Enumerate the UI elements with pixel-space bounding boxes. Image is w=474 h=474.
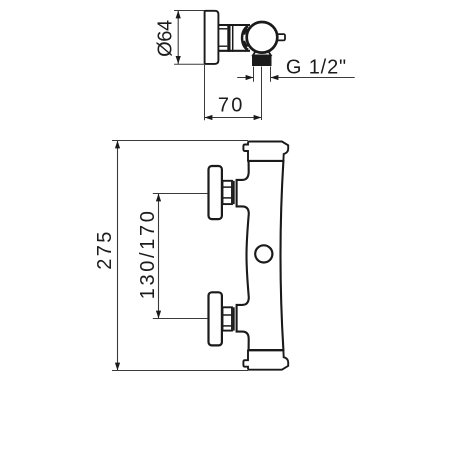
- diverter button circle: [255, 245, 272, 262]
- dim G1/2 right arrowhead: [271, 75, 279, 80]
- upper nut hex flat lower: [222, 197, 233, 199]
- svg-text:G 1/2": G 1/2": [286, 56, 347, 78]
- neck bottom edge: [218, 50, 250, 52]
- hex nut flat line lower: [218, 45, 227, 47]
- wall flange Ø64 disc (side view): [205, 11, 219, 64]
- dim G1/2 left arrow line: [237, 77, 253, 79]
- upper union: washer ring line: [233, 181, 235, 204]
- dim 70 dimension line: [205, 117, 262, 119]
- dim 130/170 arrow down: [156, 311, 161, 319]
- lower wall rosette: [209, 292, 222, 345]
- dim 275 bottom extension line: [112, 370, 248, 372]
- dim G1/2 left arrowhead: [246, 75, 254, 80]
- dim G1/2 right extension line: [270, 67, 272, 82]
- dim G1/2 left extension line: [253, 67, 255, 82]
- dim 275 dimension line: [117, 141, 119, 371]
- dim 275 top extension line: [112, 140, 248, 142]
- dim Ø64 arrow down: [176, 56, 181, 64]
- dim G1/2 leader line to label: [271, 77, 355, 79]
- dim 130/170 top extension line: [153, 193, 208, 195]
- hex nut right edge and washer (dark band): [227, 24, 230, 52]
- lower nut hex flat upper: [222, 314, 233, 316]
- outlet nut G 1/2 (black): [252, 55, 272, 66]
- svg-text:275: 275: [94, 229, 116, 269]
- dim Ø64 top extension line: [174, 10, 205, 12]
- lower nut hex flat lower: [222, 325, 233, 327]
- knurled ring crescent inner arc bottom: [244, 41, 248, 47]
- svg-text:Ø64: Ø64: [154, 20, 176, 57]
- dim 70 left arrowhead: [205, 115, 213, 120]
- upper union nut: [223, 181, 233, 204]
- top cap (thermostat handle, front): [243, 142, 288, 161]
- washer ring line: [232, 24, 234, 52]
- mixer trunk body with connection bosses: [237, 161, 284, 350]
- svg-text:70: 70: [218, 94, 245, 116]
- dim 275 arrow down: [115, 363, 120, 371]
- dim Ø64 arrow up: [176, 11, 181, 19]
- bottom cap (volume handle, front): [243, 350, 288, 369]
- dim 70 right arrowhead: [254, 115, 262, 120]
- lower union: washer ring line: [233, 307, 235, 330]
- dim Ø64 dimension line: [177, 11, 179, 64]
- dim 70 left extension line (flange edge continued): [204, 65, 206, 120]
- dim 130/170 arrow up: [156, 194, 161, 202]
- neck top edge: [218, 24, 250, 26]
- valve neck (horizontal body between flange and handle): [218, 24, 249, 52]
- thermostat handle (circle, side view): [247, 22, 278, 53]
- hex nut flat line upper: [218, 28, 227, 30]
- safety stop button (right nub): [276, 34, 285, 40]
- dim 130/170 bottom extension line: [153, 318, 208, 320]
- dim 275 arrow up: [115, 141, 120, 149]
- upper nut hex flat upper: [222, 186, 233, 188]
- knurled ring crescent outer arc: [242, 26, 248, 49]
- knurled ring crescent inner arc top: [244, 29, 248, 35]
- upper wall rosette: [209, 166, 222, 219]
- outlet connector (trapezoid): [253, 51, 271, 55]
- lower union nut: [223, 307, 233, 330]
- dim Ø64 bottom extension line: [174, 63, 205, 65]
- outlet centre extension line: [261, 67, 263, 121]
- svg-text:130/170: 130/170: [137, 208, 159, 299]
- dim 130/170 dimension line: [158, 194, 160, 319]
